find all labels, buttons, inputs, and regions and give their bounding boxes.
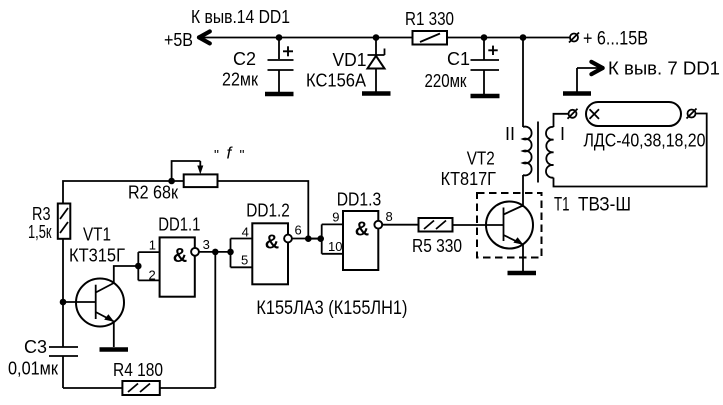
- svg-text:КС156А: КС156А: [306, 71, 366, 91]
- svg-text:6: 6: [295, 222, 302, 237]
- gate DD1.1: [160, 237, 199, 296]
- resistor R4: [122, 381, 159, 395]
- svg-text:&: &: [173, 245, 187, 267]
- svg-text:": ": [240, 147, 245, 163]
- wire R1 to +6..15V terminal: [447, 37, 570, 39]
- node VT1 base junction: [60, 299, 67, 306]
- svg-text:II: II: [505, 124, 515, 144]
- svg-text:+5В: +5В: [164, 30, 193, 50]
- svg-text:C1: C1: [447, 49, 470, 69]
- pin 5 wire: [231, 266, 253, 268]
- svg-text:1,5к: 1,5к: [28, 222, 52, 242]
- node R2 wiper junction: [168, 178, 175, 185]
- svg-text:22мк: 22мк: [222, 70, 258, 90]
- capacitor C2: [268, 38, 294, 93]
- svg-text:DD1.1: DD1.1: [158, 215, 200, 235]
- wire R3 to C3: [62, 239, 64, 347]
- svg-text:2: 2: [149, 267, 156, 282]
- wire DD1.3 output to R5: [383, 224, 419, 226]
- node VD1 junction: [373, 34, 380, 41]
- wire lamp left to winding I top: [554, 114, 569, 127]
- svg-text:+ 6...15В: + 6...15В: [583, 29, 648, 50]
- svg-text:4: 4: [242, 224, 249, 239]
- node C1 junction: [481, 34, 488, 41]
- wire lamp right loop to winding I bottom: [554, 114, 707, 187]
- arrow to pin 7 DD1 with ground: [563, 62, 603, 94]
- riser wire to DD1.1 output node: [214, 252, 216, 388]
- svg-text:C2: C2: [233, 49, 256, 69]
- transistor VT2: [453, 202, 533, 272]
- resistor R1: [413, 31, 448, 45]
- pin 4 wire: [231, 238, 253, 240]
- svg-text:R1 330: R1 330: [405, 9, 454, 29]
- wire DD1.1 out to DD1.2 bracket: [199, 251, 231, 253]
- wire DD1.2 output to junction: [292, 238, 321, 240]
- gate DD1.3: [343, 211, 382, 270]
- svg-text:R5 330: R5 330: [412, 236, 462, 256]
- node DD1.1 output junction: [212, 249, 219, 256]
- transformer T1 winding II: [523, 38, 532, 208]
- svg-text:I: I: [560, 124, 565, 144]
- node DD1.2 output junction: [305, 235, 312, 242]
- node +5V arrow to pin 14 DD1: [199, 31, 413, 43]
- svg-text:R2 68к: R2 68к: [128, 183, 178, 203]
- lamp right terminal: [687, 109, 697, 119]
- svg-text:C3: C3: [24, 337, 47, 357]
- pin 1 wire: [138, 251, 159, 253]
- svg-text:8: 8: [386, 209, 393, 224]
- ground under VT2 emitter: [508, 271, 537, 276]
- node transformer supply junction: [520, 34, 527, 41]
- svg-text:R4 180: R4 180: [113, 360, 163, 380]
- potentiometer R2: [172, 161, 218, 187]
- svg-text:0,01мк: 0,01мк: [8, 359, 58, 379]
- bottom wire C3 to R4: [63, 387, 122, 389]
- svg-text:DD1.3: DD1.3: [337, 190, 382, 210]
- transistor VT1: [63, 279, 124, 348]
- svg-text:R3: R3: [32, 204, 51, 224]
- pin 2 wire: [138, 279, 159, 281]
- ground under C1: [471, 94, 500, 99]
- transformer T1 core: [537, 122, 539, 183]
- svg-text:КТ817Г: КТ817Г: [441, 169, 497, 189]
- ground under VD1: [362, 91, 391, 96]
- node C2 junction: [276, 34, 283, 41]
- svg-text:5: 5: [241, 252, 248, 267]
- svg-text:&: &: [355, 218, 369, 240]
- dashed box around VT2: [477, 193, 542, 258]
- bottom wire R4 to riser: [160, 387, 216, 389]
- wire VT1 collector to bracket: [114, 266, 139, 283]
- node bracket DD1.2: [227, 249, 234, 256]
- svg-text:10: 10: [328, 239, 342, 254]
- svg-text:К155ЛА3 (К155ЛН1): К155ЛА3 (К155ЛН1): [256, 298, 407, 319]
- svg-text:Т1: Т1: [554, 194, 570, 216]
- capacitor C3: [49, 347, 78, 388]
- input bracket DD1.1: [137, 252, 139, 280]
- svg-text:КТ315Г: КТ315Г: [69, 246, 125, 266]
- svg-text:1: 1: [149, 237, 156, 252]
- svg-text:ЛДС-40,38,18,20: ЛДС-40,38,18,20: [584, 130, 706, 151]
- lamp left terminal: [568, 109, 578, 119]
- svg-text:VD1: VD1: [333, 50, 367, 70]
- capacitor C1: [471, 38, 500, 95]
- ground under C2: [265, 92, 294, 97]
- node bracket DD1.1: [135, 263, 142, 270]
- node bracket DD1.3: [317, 235, 324, 242]
- feedback wire DD1.2 output up and left to R2: [218, 181, 309, 239]
- resistor R5: [419, 218, 453, 232]
- pin 9 wire: [322, 223, 343, 225]
- svg-text:9: 9: [332, 209, 339, 224]
- terminal +6...15V: [569, 33, 579, 43]
- svg-text:VT1: VT1: [83, 225, 111, 245]
- transformer T1 winding I: [546, 127, 554, 178]
- wire left rail to R2: [63, 181, 184, 204]
- input bracket DD1.2: [230, 239, 232, 268]
- svg-text:DD1.2: DD1.2: [246, 201, 289, 221]
- gate DD1.2: [252, 223, 292, 284]
- svg-text:VT2: VT2: [467, 148, 495, 168]
- input bracket DD1.3: [321, 224, 323, 253]
- svg-text:220мк: 220мк: [425, 71, 467, 91]
- svg-text:&: &: [265, 232, 279, 254]
- pin 10 wire: [322, 253, 343, 255]
- svg-text:ТВЗ-Ш: ТВЗ-Ш: [578, 194, 631, 216]
- ground under VT1 emitter: [100, 347, 129, 352]
- wire junction to bracket: [308, 238, 321, 240]
- resistor R3: [58, 204, 71, 239]
- lamp EL1 ЛДС: [586, 102, 681, 126]
- svg-text:К выв.14 DD1: К выв.14 DD1: [191, 7, 290, 27]
- zener diode VD1: [368, 38, 385, 92]
- svg-text:": ": [214, 147, 219, 163]
- svg-text:3: 3: [203, 237, 210, 252]
- svg-text:К выв. 7 DD1: К выв. 7 DD1: [608, 59, 720, 79]
